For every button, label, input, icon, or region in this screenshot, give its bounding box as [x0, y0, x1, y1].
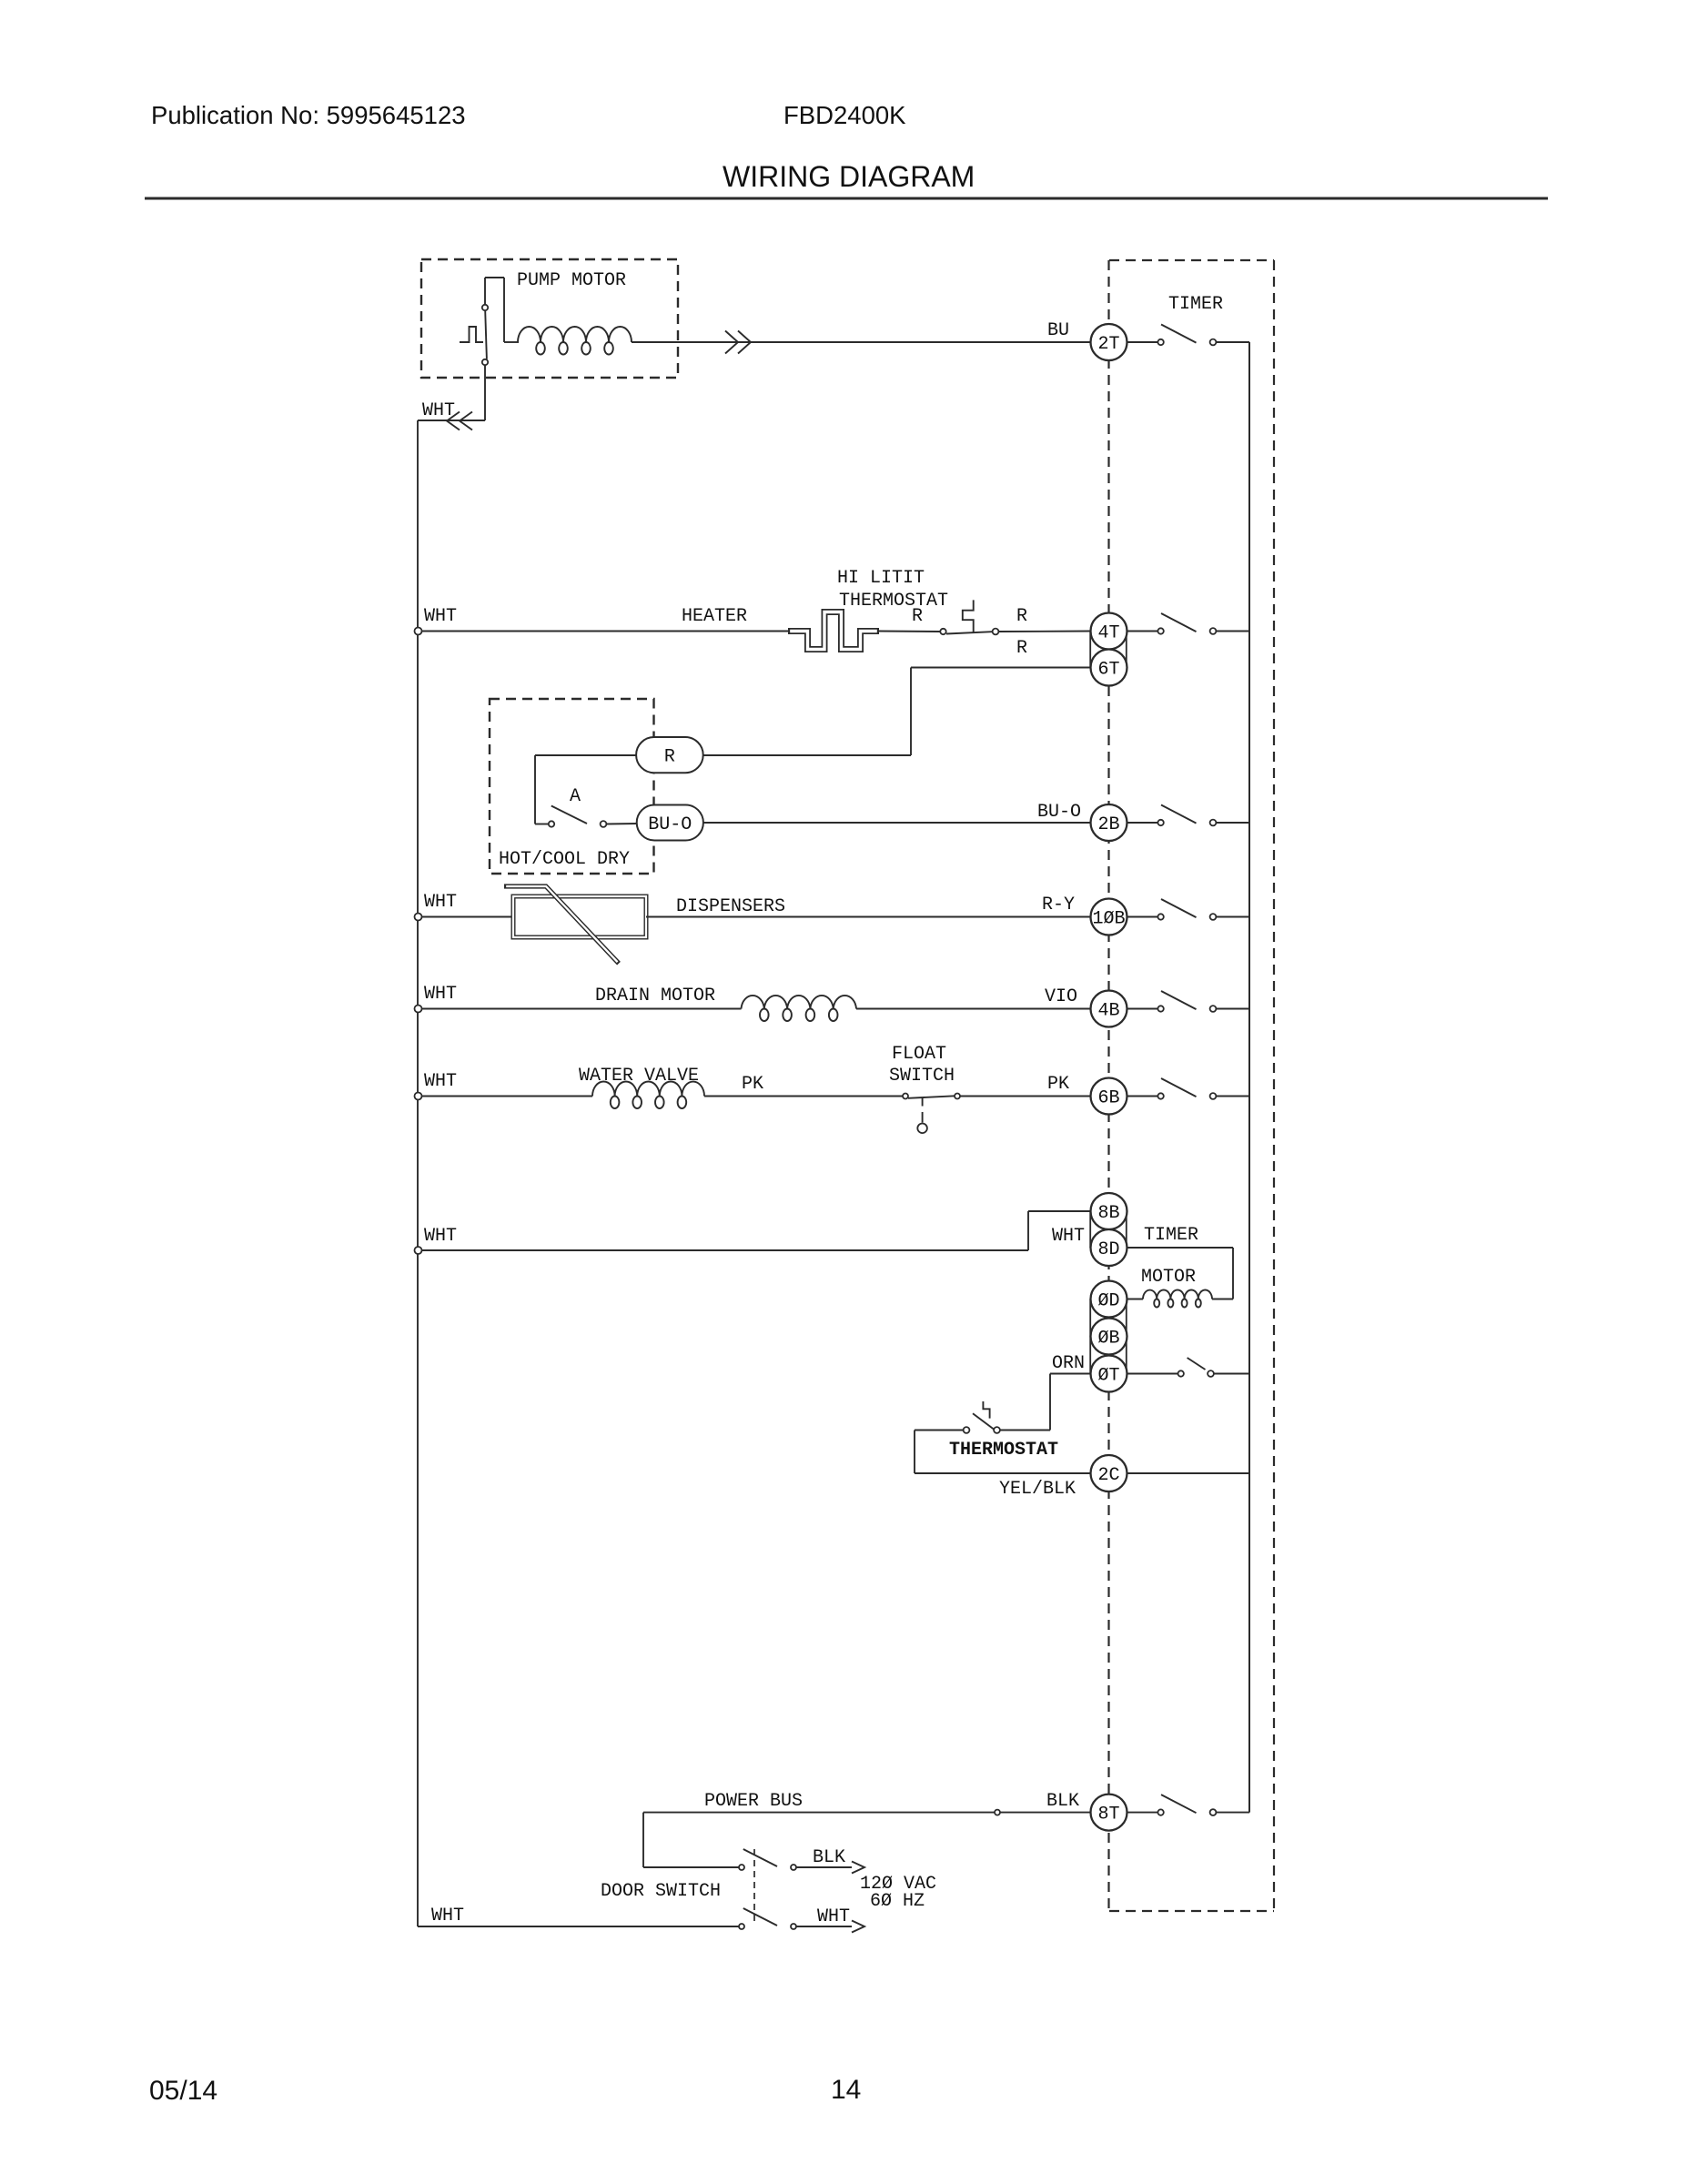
svg-text:DRAIN MOTOR: DRAIN MOTOR [595, 986, 715, 1006]
svg-text:PK: PK [1047, 1074, 1069, 1095]
svg-text:BLK: BLK [1046, 1791, 1079, 1812]
connector chevrons pointing left [447, 412, 472, 430]
terminal 6B [1091, 1078, 1127, 1115]
hot/cool dry dashed box [490, 699, 654, 874]
svg-text:FLOAT: FLOAT [892, 1044, 946, 1065]
dispenser block rectangle [513, 896, 646, 937]
timer switch 2T [1157, 339, 1163, 345]
svg-text:14: 14 [831, 2075, 861, 2105]
svg-text:05/14: 05/14 [149, 2076, 217, 2106]
wire 8T switch to right bus [1216, 1812, 1249, 1814]
svg-text:2C: 2C [1097, 1465, 1119, 1486]
connector chevrons pointing right [725, 331, 751, 354]
wire 2T to timer switch [1127, 341, 1158, 343]
svg-text:8D: 8D [1097, 1239, 1119, 1260]
svg-text:2T: 2T [1097, 334, 1119, 355]
svg-text:1ØB: 1ØB [1092, 909, 1125, 930]
pump motor pulse actuator symbol [460, 327, 483, 342]
svg-text:MOTOR: MOTOR [1141, 1267, 1196, 1288]
svg-text:POWER BUS: POWER BUS [704, 1791, 803, 1812]
svg-text:ORN: ORN [1052, 1353, 1085, 1374]
timer switch 6B [1157, 1093, 1163, 1098]
node water valve tap on left bus [415, 1093, 422, 1100]
wire door switch to BLK arrow [796, 1866, 852, 1868]
svg-text:R: R [1016, 638, 1027, 659]
wire R oval to hot/cool switch [535, 755, 636, 824]
relay coil BU-O (oval) [637, 805, 703, 841]
pump motor winding coil [518, 327, 632, 342]
svg-text:PUMP MOTOR: PUMP MOTOR [517, 270, 626, 291]
wire 2C terminal to right bus [1127, 1472, 1250, 1474]
node heater row tap on left bus [415, 628, 422, 635]
float switch [903, 1094, 960, 1099]
svg-text:HEATER: HEATER [682, 606, 747, 627]
float switch stem and float [917, 1097, 927, 1133]
terminal 0D [1091, 1281, 1127, 1318]
thermostat actuator step symbol [983, 1401, 989, 1419]
wire 10B switch to right bus [1216, 916, 1249, 918]
svg-text:4B: 4B [1097, 1001, 1119, 1022]
wire door switch to WHT arrow [796, 1926, 852, 1927]
svg-text:YEL/BLK: YEL/BLK [999, 1479, 1076, 1500]
terminal 0B [1091, 1319, 1127, 1355]
svg-text:FBD2400K: FBD2400K [783, 101, 906, 129]
terminal 8D [1091, 1229, 1127, 1266]
svg-text:THERMOSTAT: THERMOSTAT [839, 591, 948, 612]
wire 6B switch to right bus [1216, 1096, 1249, 1097]
wire timer motor coil to 0D terminal [1127, 1299, 1144, 1300]
timer switch 10B [1157, 914, 1163, 919]
wire 2B switch to right bus [1216, 822, 1249, 824]
timer motor coil [1143, 1290, 1212, 1299]
svg-text:WHT: WHT [424, 1226, 457, 1247]
timer switch 8T [1157, 1809, 1163, 1815]
timer switch 2B [1157, 820, 1163, 825]
wire left bus to heater [422, 631, 789, 632]
svg-text:WHT: WHT [1052, 1226, 1085, 1247]
terminal 8T [1091, 1795, 1127, 1831]
wire left bus to door switch (WHT pole) [418, 1926, 739, 1927]
heater element (meander) [788, 612, 879, 650]
wire 8T to timer switch [1127, 1812, 1158, 1814]
svg-text:WHT: WHT [422, 400, 455, 421]
wire 6B to timer switch [1127, 1096, 1158, 1097]
terminal 0T [1091, 1356, 1127, 1392]
svg-text:R-Y: R-Y [1042, 895, 1075, 915]
WHT line arrow [852, 1921, 864, 1933]
door switch (WHT pole) [739, 1908, 796, 1929]
wire pump coil to 2T terminal [632, 341, 1090, 343]
wire valve coil to float switch [704, 1096, 903, 1097]
svg-text:WHT: WHT [424, 606, 457, 627]
wire hi-limit switch to 4T terminal [998, 631, 1090, 633]
svg-text:BU-O: BU-O [648, 814, 692, 835]
wire 0T switch to right bus [1214, 1373, 1249, 1375]
svg-text:WHT: WHT [424, 1071, 457, 1092]
svg-text:6B: 6B [1097, 1088, 1119, 1109]
wire dispenser block to 10B terminal [646, 916, 1090, 918]
wire 6T terminal to hot/cool dry R relay [703, 668, 1090, 756]
terminal 2C [1091, 1455, 1127, 1491]
svg-text:WIRING DIAGRAM: WIRING DIAGRAM [723, 160, 975, 193]
node drain motor tap on left bus [415, 1006, 422, 1013]
wire 8D to timer motor coil [1127, 1248, 1234, 1299]
svg-text:WHT: WHT [424, 892, 457, 913]
svg-text:BLK: BLK [813, 1847, 845, 1868]
svg-text:HI LITIT: HI LITIT [837, 568, 925, 589]
svg-text:WHT: WHT [817, 1906, 850, 1927]
terminal pill 4T/6T sides [1091, 632, 1127, 668]
relay coil R (oval) [636, 737, 703, 773]
svg-text:ØT: ØT [1097, 1366, 1119, 1387]
svg-text:DISPENSERS: DISPENSERS [676, 896, 785, 917]
svg-text:SWITCH: SWITCH [889, 1066, 955, 1087]
svg-text:4T: 4T [1097, 623, 1119, 644]
terminal 4B [1091, 991, 1127, 1027]
wire 0T terminal to freezer thermostat [1000, 1374, 1091, 1431]
wire switch to BU-O oval [606, 823, 637, 825]
timer switch 4B [1157, 1006, 1163, 1011]
svg-text:WHT: WHT [424, 984, 457, 1005]
title rule [145, 197, 1548, 200]
pump motor dashed box [421, 259, 678, 378]
hi-limit thermostat switch [940, 629, 998, 635]
svg-text:R: R [664, 747, 675, 768]
wire power bus to 8T terminal [643, 1812, 1090, 1814]
svg-text:ØD: ØD [1097, 1291, 1119, 1312]
svg-text:VIO: VIO [1045, 986, 1077, 1007]
dispenser diagonal stroke [504, 886, 619, 964]
svg-text:R: R [1016, 606, 1027, 627]
wire 0T to timer switch [1127, 1373, 1178, 1375]
svg-text:Publication No: 5995645123: Publication No: 5995645123 [151, 101, 466, 129]
junction on power bus [995, 1810, 1000, 1815]
wire 4B to timer switch [1127, 1008, 1158, 1010]
node dispensers tap on left bus [415, 914, 422, 921]
wire heater to hi-limit switch [879, 631, 940, 633]
wire left bus to drain coil [422, 1008, 742, 1010]
wire drain coil to 4B terminal [856, 1008, 1090, 1010]
timer dashed box [1109, 260, 1275, 1911]
door switch mechanical link (dashed) [753, 1849, 755, 1924]
right vertical bus (timer common) [1248, 342, 1250, 1813]
wire 4B switch to right bus [1216, 1008, 1249, 1010]
terminal pill 0D/0B/0T sides [1091, 1299, 1127, 1374]
svg-text:8T: 8T [1097, 1805, 1119, 1825]
svg-text:2B: 2B [1097, 814, 1119, 835]
wire left bus to dispenser block [422, 916, 514, 918]
wire 2B to timer switch [1127, 822, 1158, 824]
freezer thermostat switch [964, 1413, 1000, 1433]
svg-text:A: A [570, 786, 581, 807]
pump motor start-switch branch wires [485, 278, 519, 420]
svg-text:TIMER: TIMER [1168, 294, 1223, 315]
svg-text:ØB: ØB [1097, 1329, 1119, 1350]
svg-text:6T: 6T [1097, 660, 1119, 681]
svg-text:6Ø HZ: 6Ø HZ [870, 1891, 925, 1912]
svg-text:BU-O: BU-O [1037, 802, 1081, 823]
BLK line arrow [852, 1862, 864, 1874]
svg-text:DOOR SWITCH: DOOR SWITCH [601, 1881, 721, 1902]
hi-limit thermal actuator step symbol [963, 600, 974, 632]
terminal pill 8B/8D sides [1091, 1211, 1127, 1248]
wire power bus down to door switch [643, 1813, 739, 1867]
svg-text:8B: 8B [1097, 1203, 1119, 1224]
wire 4T switch to right bus [1216, 631, 1249, 632]
wire 10B to timer switch [1127, 916, 1158, 918]
terminal 4T [1091, 613, 1127, 650]
wire thermostat to 2C terminal [915, 1431, 1091, 1474]
svg-text:BU: BU [1047, 320, 1069, 341]
wire float switch to 6B terminal [960, 1096, 1090, 1097]
terminal 6T [1091, 650, 1127, 686]
hot/cool dry switch [549, 806, 607, 827]
svg-text:THERMOSTAT: THERMOSTAT [949, 1440, 1058, 1461]
svg-text:R: R [912, 606, 923, 627]
drain motor coil [742, 996, 857, 1009]
wire 2T switch to right bus [1216, 341, 1249, 343]
door switch (BLK pole) [739, 1849, 796, 1870]
timer switch 4T [1157, 628, 1163, 633]
terminal 8B [1091, 1193, 1127, 1229]
svg-text:WHT: WHT [431, 1906, 464, 1926]
svg-text:HOT/COOL DRY: HOT/COOL DRY [499, 849, 630, 870]
svg-text:TIMER: TIMER [1144, 1225, 1198, 1246]
wire left bus to 8B terminal [422, 1211, 1091, 1250]
wire BU-O oval to 2B terminal [703, 822, 1090, 824]
node timer-motor tap on left bus [415, 1247, 422, 1254]
wire 4T to timer switch [1127, 631, 1158, 632]
terminal 2T [1091, 324, 1127, 360]
timer switch 0T [1178, 1358, 1214, 1377]
pump motor start switch contacts and blade [482, 305, 488, 365]
terminal 2B [1091, 804, 1127, 841]
terminal 10B [1091, 899, 1127, 935]
wire pump return with chevrons to left bus [418, 420, 485, 1926]
wire left bus to valve coil [422, 1096, 593, 1097]
water valve coil [592, 1082, 704, 1097]
svg-text:PK: PK [742, 1074, 763, 1095]
